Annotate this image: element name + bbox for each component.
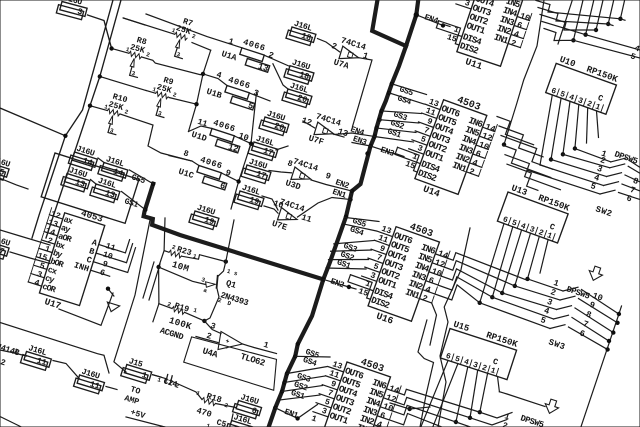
svg-text:6: 6 bbox=[578, 328, 586, 339]
svg-text:RP150K: RP150K bbox=[537, 193, 571, 214]
svg-text:1: 1 bbox=[489, 366, 497, 376]
svg-text:SW2: SW2 bbox=[594, 204, 614, 219]
svg-text:74C14: 74C14 bbox=[315, 112, 343, 129]
svg-text:1: 1 bbox=[594, 103, 602, 113]
svg-text:U1B: U1B bbox=[205, 87, 223, 101]
svg-text:2: 2 bbox=[0, 358, 7, 368]
svg-text:2: 2 bbox=[191, 33, 197, 41]
svg-text:8: 8 bbox=[182, 149, 189, 159]
svg-text:6: 6 bbox=[550, 87, 558, 97]
svg-text:SW3: SW3 bbox=[547, 337, 567, 352]
svg-text:4: 4 bbox=[215, 71, 222, 81]
svg-text:EN3: EN3 bbox=[352, 135, 368, 148]
svg-text:U16: U16 bbox=[375, 311, 395, 327]
svg-text:cOR: cOR bbox=[41, 282, 58, 296]
svg-text:1: 1 bbox=[310, 414, 318, 424]
svg-text:1: 1 bbox=[227, 37, 234, 47]
svg-text:1: 1 bbox=[195, 390, 201, 398]
svg-text:2: 2 bbox=[481, 364, 489, 374]
svg-text:1: 1 bbox=[262, 341, 269, 351]
svg-text:5: 5 bbox=[539, 315, 547, 326]
svg-text:2: 2 bbox=[166, 301, 172, 309]
svg-text:U1D: U1D bbox=[190, 130, 208, 144]
svg-text:4: 4 bbox=[519, 222, 527, 232]
svg-text:+5V: +5V bbox=[129, 408, 146, 421]
svg-text:2N4393: 2N4393 bbox=[219, 290, 249, 308]
svg-text:U3D: U3D bbox=[284, 178, 302, 192]
svg-text:3: 3 bbox=[528, 225, 536, 235]
svg-text:470: 470 bbox=[195, 406, 213, 420]
svg-text:J15: J15 bbox=[127, 357, 143, 370]
svg-text:J16U: J16U bbox=[239, 393, 260, 407]
svg-text:1: 1 bbox=[361, 51, 369, 62]
svg-text:RP150K: RP150K bbox=[485, 330, 519, 350]
svg-text:1: 1 bbox=[156, 376, 162, 384]
svg-text:74C14: 74C14 bbox=[340, 36, 368, 53]
svg-text:3: 3 bbox=[472, 361, 480, 371]
svg-text:5: 5 bbox=[510, 218, 518, 228]
svg-text:1: 1 bbox=[205, 422, 211, 427]
svg-text:DPSW5: DPSW5 bbox=[519, 413, 545, 427]
svg-text:J16L: J16L bbox=[232, 413, 253, 427]
svg-text:10M: 10M bbox=[171, 259, 191, 275]
svg-text:U7F: U7F bbox=[307, 133, 325, 147]
svg-text:U1C: U1C bbox=[177, 167, 195, 181]
svg-text:s: s bbox=[233, 270, 239, 278]
svg-text:RP150K: RP150K bbox=[585, 64, 619, 85]
svg-text:U14: U14 bbox=[421, 183, 441, 199]
svg-text:1: 1 bbox=[546, 231, 554, 241]
svg-text:1: 1 bbox=[226, 268, 232, 276]
svg-text:9: 9 bbox=[324, 171, 332, 182]
svg-text:a: a bbox=[202, 287, 208, 295]
svg-text:U4A: U4A bbox=[201, 346, 219, 360]
svg-text:4: 4 bbox=[568, 93, 576, 103]
svg-text:74C14: 74C14 bbox=[292, 156, 320, 173]
svg-text:2: 2 bbox=[501, 421, 509, 427]
svg-text:2: 2 bbox=[509, 38, 517, 49]
svg-text:5: 5 bbox=[589, 181, 597, 192]
svg-text:C5: C5 bbox=[215, 418, 227, 427]
svg-text:R18: R18 bbox=[205, 391, 223, 405]
svg-text:U11: U11 bbox=[464, 56, 484, 72]
svg-text:U15: U15 bbox=[452, 320, 471, 335]
svg-text:1: 1 bbox=[192, 307, 198, 315]
svg-text:U13: U13 bbox=[510, 183, 529, 198]
svg-text:U1A: U1A bbox=[220, 49, 239, 64]
svg-text:U7A: U7A bbox=[332, 57, 351, 71]
svg-text:TLO62: TLO62 bbox=[239, 352, 266, 369]
svg-text:5: 5 bbox=[454, 355, 462, 365]
svg-text:R19: R19 bbox=[173, 302, 190, 315]
svg-text:C: C bbox=[596, 94, 604, 104]
svg-text:C: C bbox=[548, 223, 556, 233]
svg-text:2: 2 bbox=[537, 228, 545, 238]
svg-text:U10: U10 bbox=[558, 55, 577, 70]
svg-text:EN4: EN4 bbox=[423, 13, 439, 26]
svg-text:3: 3 bbox=[576, 96, 584, 106]
svg-text:D: D bbox=[226, 300, 232, 308]
svg-text:6: 6 bbox=[501, 215, 509, 225]
svg-text:EN3: EN3 bbox=[379, 146, 395, 159]
svg-text:2: 2 bbox=[585, 99, 593, 109]
svg-text:5: 5 bbox=[559, 90, 567, 100]
svg-text:C: C bbox=[491, 358, 499, 368]
svg-text:4: 4 bbox=[463, 358, 471, 368]
svg-text:U7E: U7E bbox=[271, 219, 289, 233]
svg-text:Q1: Q1 bbox=[225, 278, 238, 291]
